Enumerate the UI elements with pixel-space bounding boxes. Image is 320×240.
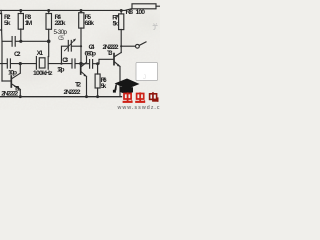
svg-text:C3: C3 [62, 57, 68, 64]
svg-text:1M: 1M [25, 20, 33, 27]
resistor R5 [79, 13, 84, 28]
svg-text:C5: C5 [58, 35, 64, 42]
resistor R7 [119, 14, 124, 30]
capacitor C2 [0, 59, 20, 68]
faint scan artifact character top right [153, 23, 158, 29]
svg-text:680p: 680p [85, 51, 97, 58]
wire R4 lead down to crystal right plate [48, 10, 50, 56]
wire left vertical column [0, 10, 3, 81]
resistor R6 [95, 74, 100, 88]
transistor T2 [80, 63, 82, 74]
node A junction dots [19, 40, 50, 44]
wire bottom ground rail [0, 96, 122, 98]
watermark graduation-cap logo [113, 79, 140, 94]
paper scan noise [0, 0, 160, 110]
node dots top rail [19, 9, 122, 12]
crystal X1 [35, 57, 37, 70]
wire to T3 base [99, 59, 114, 63]
node dot trimmer right [60, 45, 82, 65]
resistor R4 [46, 14, 52, 30]
wire top supply rail [0, 9, 131, 11]
node dot T2 base [79, 62, 82, 65]
svg-text:2N2222: 2N2222 [64, 89, 81, 96]
svg-text:T2: T2 [75, 81, 81, 88]
resistor R8 (horizontal box) [132, 4, 156, 9]
resistor R2 (cut off at left edge) [0, 14, 2, 31]
svg-text:5k: 5k [4, 20, 11, 27]
svg-text:J: J [143, 75, 146, 81]
capacitor C1 (in node-A wire) [2, 37, 49, 47]
capacitor C3 [72, 59, 81, 68]
svg-text:5k: 5k [113, 21, 119, 28]
svg-text:10p: 10p [8, 69, 17, 76]
wire R7 leads / collector column [120, 10, 122, 52]
resistor R3 [18, 14, 23, 30]
trimmer arrow [65, 39, 76, 51]
svg-text:R8: R8 [126, 9, 134, 16]
wire R8 right stub to edge [156, 5, 160, 7]
wire output branch [121, 45, 135, 47]
wire R3 leads [20, 10, 22, 41]
svg-text:X1: X1 [37, 50, 44, 57]
svg-text:2N2222: 2N2222 [1, 91, 18, 98]
wire output diagonal stub [139, 42, 146, 45]
transistor T3 [113, 54, 115, 65]
wire R6 leads [97, 64, 99, 97]
svg-text:12p: 12p [57, 66, 65, 73]
svg-text:220k: 220k [55, 20, 66, 27]
svg-text:100kHz: 100kHz [33, 70, 53, 77]
transistor T1 [10, 76, 12, 87]
svg-text:6.8k: 6.8k [85, 20, 95, 27]
capacitor C4 [81, 60, 99, 69]
wire R5 lead down to T2 base node [80, 10, 82, 63]
wire crystal to C3 [48, 63, 72, 65]
svg-text:T3: T3 [107, 50, 113, 57]
output terminal circle [136, 44, 140, 48]
svg-text:www.sswdz.c: www.sswdz.c [117, 105, 160, 110]
node dot R6 top [96, 62, 99, 65]
svg-text:5k: 5k [101, 83, 107, 90]
paper mottle blobs [8, 9, 160, 95]
node dots bottom rail [19, 95, 99, 98]
svg-text:100: 100 [136, 9, 146, 16]
trimmer capacitor C5 branch [61, 40, 81, 63]
watermark red text chong chong dian (drawn as shapes) [123, 92, 159, 103]
node dot T1 collector [19, 62, 22, 65]
wire to crystal [20, 63, 36, 65]
watermark white box [136, 63, 158, 81]
svg-text:C2: C2 [14, 51, 21, 58]
